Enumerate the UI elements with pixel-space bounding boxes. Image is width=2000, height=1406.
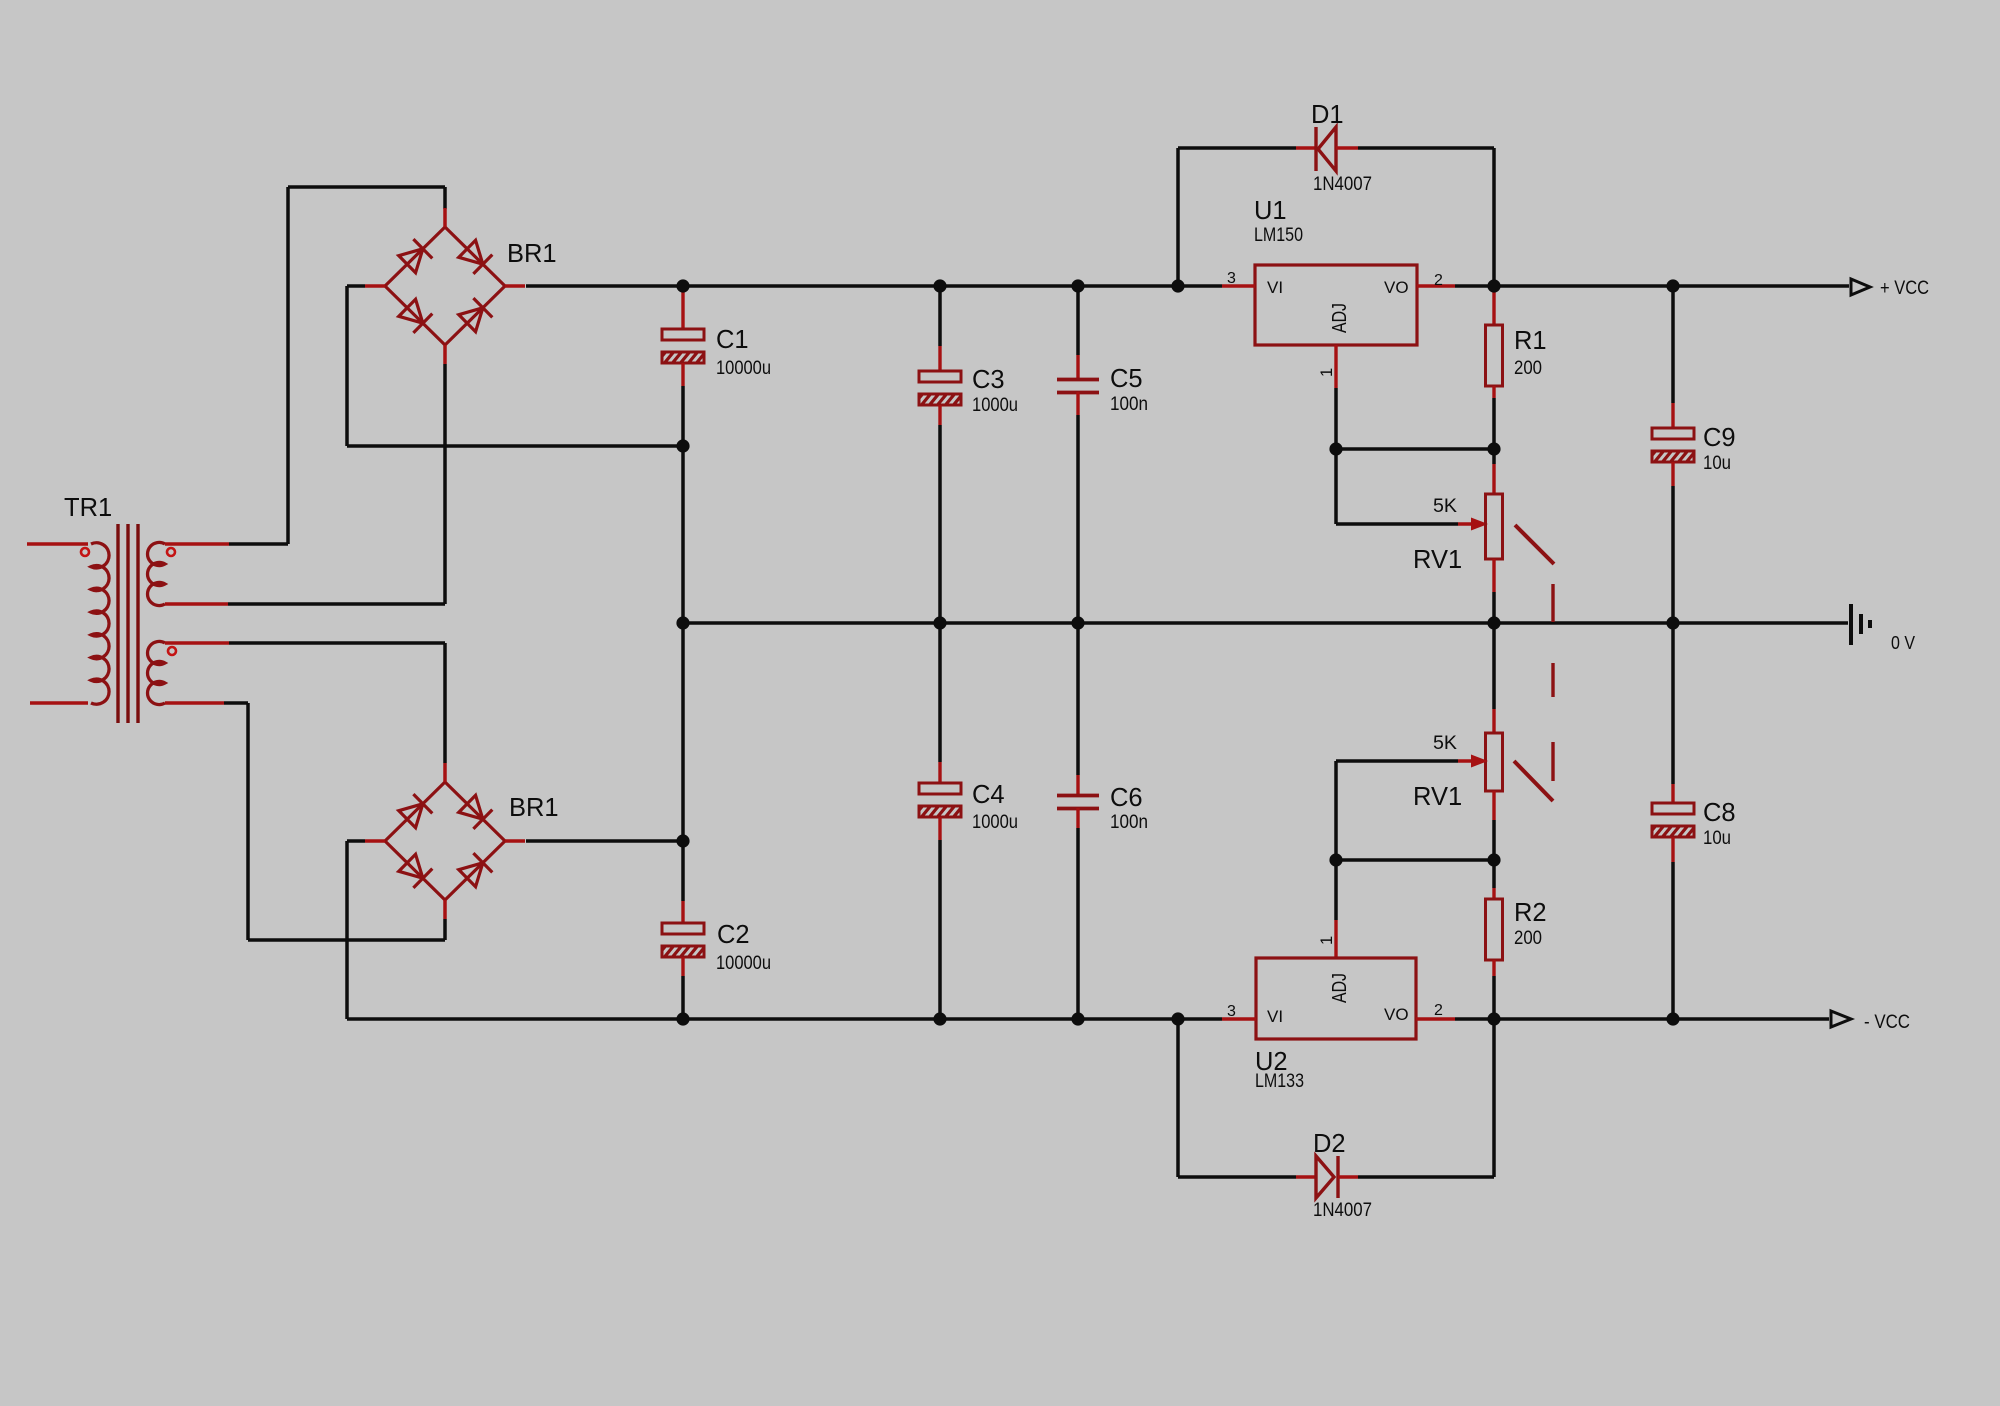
- wire R2 node to R2: [1492, 860, 1496, 899]
- svg-text:10000u: 10000u: [716, 357, 771, 379]
- capacitor C4: [911, 783, 981, 820]
- svg-text:5K: 5K: [1433, 732, 1457, 754]
- bridge rectifier BR1 (upper): [365, 208, 525, 364]
- svg-text:+ VCC: + VCC: [1880, 277, 1929, 299]
- RV1 switch diagonal (lower): [1514, 761, 1553, 801]
- capacitor C9: [1644, 428, 1714, 465]
- svg-text:R2: R2: [1514, 899, 1547, 927]
- svg-text:LM133: LM133: [1255, 1070, 1304, 1092]
- wire VI riser to D1: [1178, 148, 1296, 286]
- RV1 lower wiper arrow: [1336, 755, 1488, 768]
- svg-text:3: 3: [1227, 270, 1236, 287]
- wire +rail to C9: [1671, 286, 1675, 428]
- svg-text:2: 2: [1434, 1002, 1443, 1019]
- resistor R2: [1486, 899, 1503, 960]
- wire top +rail from bridge to U1 VI: [526, 284, 1222, 288]
- wire C1 bottom to 0V: [681, 363, 684, 623]
- wire lower bridge minus to -rail: [347, 841, 1222, 1019]
- svg-text:C3: C3: [972, 366, 1005, 394]
- resistor R1: [1486, 325, 1503, 386]
- svg-text:1: 1: [1318, 936, 1336, 945]
- capacitor C2: [654, 923, 724, 960]
- wire +rail to C1: [681, 286, 684, 329]
- wire lower secondary bottom to bridge BR1(lower) bottom: [224, 703, 445, 940]
- mechanical link dashed line: [1551, 584, 1554, 781]
- potentiometer RV1 (upper): [1486, 494, 1503, 559]
- svg-text:D1: D1: [1311, 101, 1344, 129]
- wire D1 to VO node: [1358, 148, 1494, 286]
- junction dots -rail: [676, 1012, 1679, 1025]
- wire 0V to C6: [1076, 623, 1080, 796]
- junction dot lower bridge plus: [676, 834, 689, 847]
- RV1 switch diagonal (upper): [1515, 525, 1554, 564]
- wire ADJ node to RV1 top: [1492, 449, 1496, 494]
- wire C6 bottom to -rail: [1076, 808, 1079, 1019]
- svg-text:10u: 10u: [1703, 452, 1731, 474]
- wire C8 bottom to -rail: [1671, 837, 1674, 1019]
- junction dots 0V rail: [676, 616, 1679, 629]
- svg-text:200: 200: [1514, 357, 1542, 379]
- wire C5 bottom to 0V: [1076, 392, 1079, 623]
- wire upper bridge minus to 0V node: [347, 286, 683, 446]
- wire +rail to C3: [938, 286, 942, 371]
- svg-text:ADJ: ADJ: [1329, 303, 1351, 333]
- svg-text:C9: C9: [1703, 424, 1736, 452]
- svg-text:1N4007: 1N4007: [1313, 1199, 1372, 1221]
- svg-text:LM150: LM150: [1254, 224, 1303, 246]
- capacitor C5: [1057, 378, 1099, 382]
- svg-text:- VCC: - VCC: [1864, 1011, 1910, 1033]
- junction dot upper bridge minus: [676, 439, 689, 452]
- svg-text:100n: 100n: [1110, 393, 1148, 415]
- wire +rail to C5: [1076, 286, 1080, 379]
- capacitor C3: [911, 371, 981, 408]
- svg-text:C6: C6: [1110, 784, 1143, 812]
- wire C4 bottom to -rail: [938, 817, 941, 1019]
- wire 0V to C4: [938, 623, 942, 783]
- svg-text:R1: R1: [1514, 327, 1547, 355]
- junction dots top rail: [676, 279, 1679, 292]
- svg-text:10u: 10u: [1703, 827, 1731, 849]
- wire RV1 bottom to 0V: [1492, 559, 1495, 623]
- potentiometer RV1 (lower): [1486, 733, 1503, 791]
- wire 0V down to lower bridge node and C2: [681, 623, 685, 923]
- wire RV1 lower bottom to R2 node: [1492, 791, 1495, 860]
- svg-text:100n: 100n: [1110, 811, 1148, 833]
- svg-text:VO: VO: [1384, 1005, 1409, 1024]
- transformer TR1: [27, 524, 229, 723]
- svg-text:5K: 5K: [1433, 495, 1457, 517]
- svg-text:1000u: 1000u: [972, 394, 1018, 416]
- wire C2 bottom to -rail: [681, 957, 684, 1019]
- svg-text:0 V: 0 V: [1891, 632, 1916, 653]
- wire VO node to R1: [1492, 286, 1495, 325]
- svg-text:D2: D2: [1313, 1130, 1346, 1158]
- wire D2 to VO node: [1358, 1019, 1494, 1177]
- junction dots ADJ net upper: [1329, 442, 1500, 455]
- wire R1 bottom to ADJ node: [1492, 386, 1495, 449]
- capacitor C1: [654, 329, 724, 366]
- bridge rectifier BR1 (lower): [365, 763, 525, 919]
- wire 0V rail: [683, 621, 1848, 625]
- wire U1 ADJ to R1/RV1: [1336, 388, 1494, 524]
- wire ADJ link lower: [1336, 761, 1494, 958]
- svg-text:TR1: TR1: [64, 494, 112, 522]
- wire top +rail from U1 VO to +VCC: [1455, 284, 1849, 288]
- svg-text:1N4007: 1N4007: [1313, 173, 1372, 195]
- power flag -VCC: [1831, 1011, 1851, 1027]
- svg-text:C2: C2: [717, 921, 750, 949]
- svg-text:RV1: RV1: [1413, 783, 1462, 811]
- diode D2 1N4007: [1296, 1156, 1358, 1198]
- svg-text:C4: C4: [972, 781, 1005, 809]
- svg-text:VI: VI: [1267, 278, 1283, 297]
- svg-text:C8: C8: [1703, 799, 1736, 827]
- svg-text:C5: C5: [1110, 365, 1143, 393]
- diode D1 1N4007: [1296, 127, 1358, 171]
- ground symbol 0V: [1851, 604, 1870, 645]
- power flag +VCC: [1851, 279, 1870, 295]
- svg-text:BR1: BR1: [507, 240, 557, 268]
- capacitor C8: [1644, 803, 1714, 840]
- junction dots ADJ net lower: [1329, 853, 1500, 866]
- wire C9 bottom to 0V: [1671, 462, 1674, 623]
- svg-text:2: 2: [1434, 272, 1443, 289]
- wire 0V to C8: [1671, 623, 1675, 803]
- svg-text:200: 200: [1514, 927, 1542, 949]
- svg-text:ADJ: ADJ: [1329, 973, 1351, 1003]
- svg-text:3: 3: [1227, 1003, 1236, 1020]
- wire -rail from U2 VO to -VCC: [1455, 1017, 1829, 1021]
- wire upper secondary top to bridge BR1 top: [229, 187, 445, 544]
- wire lower secondary top to bridge BR1(lower) top: [229, 643, 445, 763]
- svg-text:1: 1: [1318, 368, 1336, 377]
- wire C3 bottom to 0V: [938, 405, 941, 623]
- svg-text:U1: U1: [1254, 197, 1287, 225]
- capacitor C6: [1057, 794, 1099, 798]
- svg-text:10000u: 10000u: [716, 952, 771, 974]
- regulator U2 LM133: [1222, 958, 1455, 1039]
- RV1 wiper arrow (upper): [1458, 518, 1488, 531]
- svg-text:VO: VO: [1384, 278, 1409, 297]
- svg-text:RV1: RV1: [1413, 546, 1462, 574]
- wire lower bridge plus to 0V column: [526, 839, 683, 843]
- wire 0V to RV1 lower top: [1492, 623, 1496, 733]
- regulator U1 LM150: [1222, 265, 1455, 388]
- svg-text:BR1: BR1: [509, 794, 559, 822]
- svg-text:1000u: 1000u: [972, 811, 1018, 833]
- svg-text:C1: C1: [716, 326, 749, 354]
- svg-text:VI: VI: [1267, 1007, 1283, 1026]
- wire upper secondary bottom to bridge BR1 bottom: [228, 364, 445, 604]
- wire R2 bottom to -rail: [1492, 960, 1495, 1019]
- wire U2 VI riser to D2: [1178, 1019, 1296, 1177]
